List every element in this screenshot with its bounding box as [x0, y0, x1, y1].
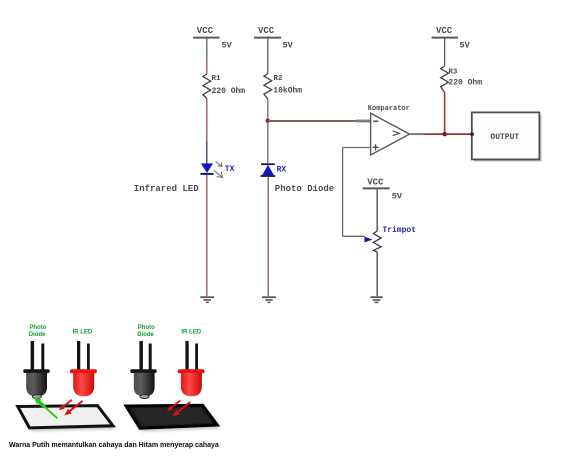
- IR LED device body (left): [73, 373, 94, 396]
- svg-text:R1: R1: [212, 75, 222, 83]
- svg-text:OUTPUT: OUTPUT: [490, 133, 519, 142]
- op-amp non-inverting input marker +: [373, 144, 379, 150]
- IR LED device collar (right): [178, 369, 205, 373]
- photo diode RX anode bar: [261, 175, 276, 177]
- white reflective board: [18, 406, 113, 428]
- resistor R2: [264, 74, 272, 100]
- power symbol VCC (R1 branch): [193, 26, 220, 38]
- photo diode device legs (right): [139, 341, 151, 371]
- svg-text:Photo: Photo: [29, 325, 46, 331]
- red emitted-light arrow 1 (left): [59, 400, 72, 410]
- red emitted-light arrow 2 (left): [64, 401, 82, 415]
- OUTPUT box label: [490, 133, 519, 142]
- IR LED device legs (right): [185, 341, 198, 371]
- wire node A to photo diode RX: [267, 121, 269, 163]
- node A junction dot: [266, 119, 270, 123]
- LED emission arrow 2: [214, 170, 223, 177]
- black board inner panel: [132, 408, 212, 426]
- svg-text:5V: 5V: [222, 41, 233, 51]
- comparator output pin stub: [410, 133, 425, 135]
- node B junction dot: [442, 132, 447, 137]
- trimpot resistor body: [373, 231, 381, 252]
- value label 220 Ohm (R1): [212, 87, 246, 96]
- value label 10kOhm (R2): [273, 86, 302, 95]
- reference label TX: [225, 165, 235, 174]
- photo diode device collar (left): [23, 369, 49, 373]
- red emitted-light arrow 2 (right): [173, 402, 191, 416]
- caption text: [9, 442, 219, 449]
- op-amp U1 comparator triangle: [371, 113, 410, 155]
- wire to trimpot wiper (horizontal): [343, 235, 365, 237]
- ground (R1 branch): [200, 297, 214, 302]
- svg-text:Diode: Diode: [29, 332, 46, 338]
- value label 5V (trimpot branch): [392, 192, 403, 202]
- svg-text:R3: R3: [448, 69, 458, 77]
- svg-text:VCC: VCC: [258, 26, 275, 36]
- photo diode device body (right): [134, 373, 155, 397]
- OUTPUT box: [472, 112, 540, 159]
- resistor R1: [203, 74, 211, 99]
- wire VCC to R3: [444, 39, 446, 67]
- svg-text:VCC: VCC: [197, 26, 214, 36]
- svg-text:VCC: VCC: [367, 178, 384, 188]
- black board shadow: [129, 408, 220, 431]
- illustration label IR LED (left, green): [73, 330, 93, 336]
- svg-text:RX: RX: [277, 166, 287, 175]
- reference label R3: [448, 69, 458, 77]
- wire comparator non-inverting input horizontal: [343, 147, 371, 149]
- wire R1 to LED TX (maroon): [206, 99, 208, 142]
- ground (trimpot branch): [370, 297, 382, 302]
- photo diode device collar (right): [130, 369, 156, 373]
- svg-text:Photo Diode: Photo Diode: [275, 184, 334, 194]
- svg-text:IR LED: IR LED: [181, 330, 201, 336]
- svg-text:Infrared LED: Infrared LED: [134, 184, 199, 194]
- wire VCC to R2: [267, 39, 269, 74]
- wire R3 to node B (red): [444, 93, 446, 135]
- power symbol VCC (R2 branch): [254, 26, 281, 38]
- svg-text:220 Ohm: 220 Ohm: [448, 79, 482, 88]
- value label 5V (R2 branch): [283, 41, 294, 51]
- wire node A to comparator inverting input: [268, 120, 356, 122]
- comparator symbol >: [393, 131, 400, 136]
- svg-text:5V: 5V: [460, 41, 471, 51]
- OUTPUT box shadow: [474, 115, 542, 160]
- component label Photo Diode: [275, 184, 334, 194]
- photo diode RX (diode triangle): [262, 165, 274, 176]
- svg-text:Warna Putih memantulkan cahaya: Warna Putih memantulkan cahaya dan Hitam…: [9, 442, 219, 449]
- svg-text:TX: TX: [225, 165, 235, 174]
- illustration label IR LED (right, green): [181, 330, 201, 336]
- photo diode RX cathode bar: [261, 163, 275, 165]
- reference label R1: [212, 75, 222, 83]
- wire VCC to R1 (upper gray): [206, 39, 208, 59]
- power symbol VCC (trimpot branch): [363, 178, 390, 189]
- IR LED device legs (left): [77, 341, 90, 371]
- green reflected-light arrow: [34, 397, 58, 418]
- wire R1 to LED TX (dark pin): [206, 141, 208, 164]
- photo diode device legs (left): [31, 341, 45, 371]
- svg-text:Diode: Diode: [137, 332, 154, 338]
- illustration label Photo Diode (right, green): [137, 325, 155, 338]
- svg-text:5V: 5V: [392, 192, 403, 202]
- svg-text:Trimpot: Trimpot: [382, 226, 416, 235]
- svg-text:5V: 5V: [283, 41, 294, 51]
- IR LED device collar (left): [70, 369, 97, 373]
- illustration label Photo Diode (left, green): [29, 325, 47, 338]
- wire RX to ground: [267, 177, 269, 296]
- reference label RX: [277, 166, 287, 175]
- photo diode device body (left): [26, 373, 47, 397]
- op-amp inverting input marker -: [373, 120, 378, 122]
- comparator inverting input pin stub: [356, 120, 371, 123]
- red emitted-light arrow 1 (right): [167, 401, 180, 412]
- power symbol VCC (R3 branch): [432, 26, 459, 38]
- black absorbing board: [126, 405, 217, 428]
- photo diode device tip (right): [140, 395, 149, 399]
- wire comparator output to node B: [425, 133, 472, 135]
- OUTPUT box pin dot: [470, 132, 474, 136]
- svg-text:Komparator: Komparator: [368, 105, 410, 113]
- value label 5V (R1 branch): [222, 41, 233, 51]
- infrared LED TX (diode triangle): [201, 163, 213, 173]
- IR LED device body (right): [181, 373, 202, 396]
- component label Infrared LED: [134, 184, 199, 194]
- white board shadow: [20, 409, 115, 431]
- wire VCC to R1 (lower maroon): [206, 58, 208, 74]
- value label 220 Ohm (R3): [448, 79, 482, 88]
- wire LED TX to ground: [206, 175, 208, 296]
- reference label R2: [274, 75, 284, 83]
- reference label Trimpot: [382, 226, 416, 235]
- resistor R3: [441, 66, 449, 93]
- wire down to trimpot wiper (vertical): [342, 148, 344, 237]
- svg-text:Photo: Photo: [138, 325, 155, 331]
- svg-text:R2: R2: [274, 75, 284, 83]
- ground (R2 branch): [262, 297, 276, 302]
- svg-text:IR LED: IR LED: [73, 330, 93, 336]
- photo diode device tip (left): [32, 395, 41, 399]
- wire VCC to trimpot: [376, 189, 378, 231]
- wire trimpot to ground: [376, 252, 378, 296]
- svg-text:10kOhm: 10kOhm: [273, 86, 302, 95]
- wire R2 to node A: [267, 99, 269, 121]
- value label 5V (R3 branch): [460, 41, 471, 51]
- component label Komparator: [368, 105, 410, 113]
- infrared LED TX cathode bar: [200, 173, 213, 175]
- LED emission arrow 1: [216, 162, 222, 167]
- svg-text:VCC: VCC: [436, 26, 453, 36]
- svg-text:220 Ohm: 220 Ohm: [212, 87, 246, 96]
- trimpot wiper arrow: [364, 237, 372, 243]
